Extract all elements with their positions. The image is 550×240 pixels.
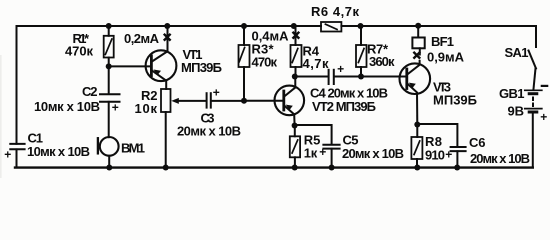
- svg-text:+: +: [319, 145, 326, 159]
- svg-text:20мк x 10В: 20мк x 10В: [342, 146, 404, 161]
- svg-text:9В: 9В: [508, 104, 525, 119]
- svg-text:BF1: BF1: [431, 34, 454, 49]
- svg-text:10мк x 10В: 10мк x 10В: [34, 99, 100, 114]
- svg-text:470к: 470к: [252, 55, 278, 70]
- svg-text:SA1: SA1: [505, 45, 529, 60]
- svg-text:C2: C2: [82, 84, 98, 99]
- svg-text:10к: 10к: [135, 101, 158, 116]
- svg-text:0,9мА: 0,9мА: [427, 50, 465, 65]
- svg-text:+: +: [112, 100, 119, 114]
- svg-text:10мк x 10В: 10мк x 10В: [27, 144, 90, 159]
- svg-text:360к: 360к: [369, 54, 395, 69]
- svg-text:+: +: [445, 147, 452, 161]
- svg-text:0,2мА: 0,2мА: [124, 31, 160, 46]
- svg-text:VT2 МП39Б: VT2 МП39Б: [312, 99, 376, 114]
- svg-text:20мк x 10В: 20мк x 10В: [177, 124, 241, 139]
- svg-text:+: +: [337, 62, 344, 76]
- svg-text:+: +: [540, 110, 547, 124]
- svg-text:+: +: [213, 86, 220, 100]
- svg-text:GB1: GB1: [499, 86, 525, 101]
- svg-text:BM1: BM1: [121, 141, 145, 156]
- svg-text:470к: 470к: [65, 44, 93, 59]
- svg-text:МП39Б: МП39Б: [433, 93, 477, 108]
- svg-text:R6 4,7к: R6 4,7к: [311, 4, 359, 19]
- svg-text:20мк x 10В: 20мк x 10В: [470, 151, 530, 166]
- svg-text:МП39Б: МП39Б: [181, 60, 222, 75]
- svg-text:+: +: [4, 147, 11, 161]
- svg-text:4,7к: 4,7к: [303, 56, 329, 71]
- svg-text:1к: 1к: [304, 146, 318, 161]
- svg-text:C6: C6: [469, 135, 486, 150]
- svg-text:910: 910: [425, 147, 445, 162]
